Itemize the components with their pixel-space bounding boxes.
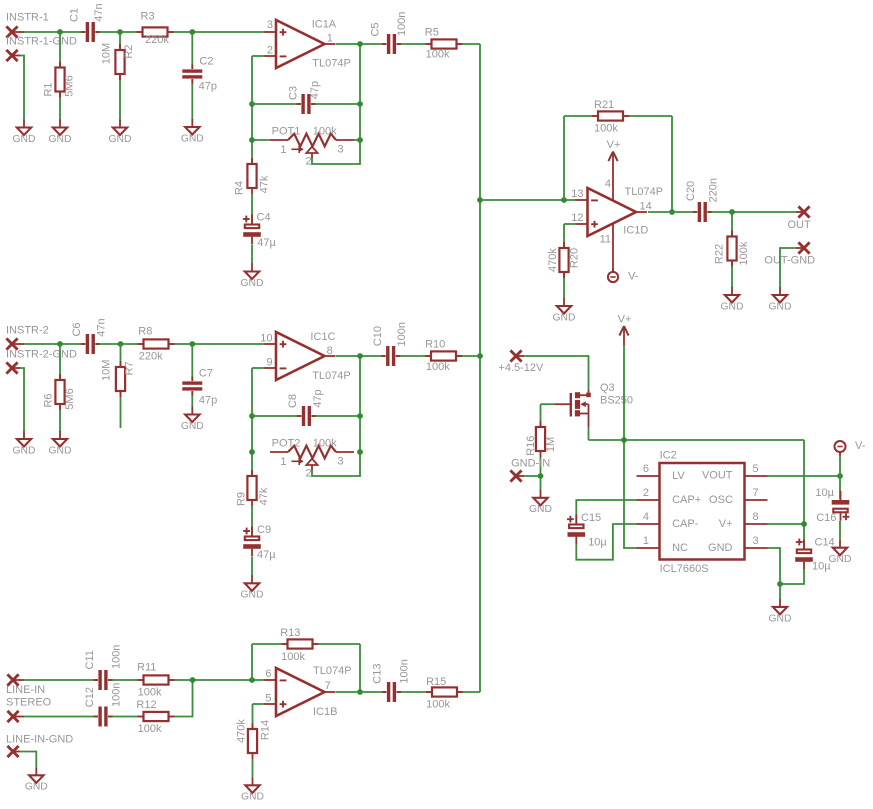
svg-text:IC1C: IC1C <box>310 331 335 343</box>
wire feedback left leg 2 <box>251 368 253 476</box>
ground <box>13 120 36 145</box>
svg-text:R16: R16 <box>525 436 537 456</box>
node junction GND-IN <box>538 473 544 479</box>
svg-text:R7: R7 <box>124 361 136 375</box>
svg-text:R5: R5 <box>425 27 439 39</box>
potentiometer POT2 <box>270 437 354 479</box>
node junction R1 <box>57 29 63 35</box>
svg-text:C14: C14 <box>815 537 835 549</box>
svg-text:2: 2 <box>305 156 311 168</box>
op-amp IC1B <box>264 665 352 718</box>
svg-text:100k: 100k <box>426 49 450 61</box>
svg-text:STEREO: STEREO <box>6 696 52 708</box>
node junction R6 <box>57 341 63 347</box>
node junction stereo mix <box>190 677 196 683</box>
wire IC1D V+ pin 4 <box>612 170 614 200</box>
svg-text:10µ: 10µ <box>588 536 607 548</box>
wire LINE-IN row2 <box>24 680 193 717</box>
ground <box>13 431 36 456</box>
svg-text:V-: V- <box>628 271 639 283</box>
svg-text:R13: R13 <box>280 627 300 639</box>
resistor R15 <box>426 676 463 710</box>
wire R22 branch <box>731 212 733 288</box>
svg-text:CAP-: CAP- <box>672 518 699 530</box>
net label INSTR-2 <box>6 325 49 337</box>
wire R21 row <box>564 115 672 117</box>
svg-text:C20: C20 <box>685 181 697 201</box>
resistor R2 <box>101 43 135 80</box>
svg-text:R1: R1 <box>43 82 55 96</box>
svg-text:47p: 47p <box>309 81 321 99</box>
svg-text:GND: GND <box>708 542 733 554</box>
svg-text:TL074P: TL074P <box>312 370 351 382</box>
svg-text:INSTR-2: INSTR-2 <box>6 325 49 337</box>
resistor R13 <box>280 627 318 663</box>
svg-text:1M: 1M <box>545 437 557 452</box>
op-amp IC1D <box>571 178 663 246</box>
wire R1 branch <box>59 32 61 121</box>
wire VOUT to C16 <box>839 476 841 500</box>
wire R4 to C4 <box>251 194 253 224</box>
resistor R5 <box>425 27 463 61</box>
svg-text:220n: 220n <box>707 178 719 202</box>
svg-text:100n: 100n <box>110 645 122 669</box>
pin OUT <box>796 206 810 217</box>
wire mixing trunk <box>479 44 481 692</box>
svg-text:8: 8 <box>753 511 759 523</box>
svg-text:100k: 100k <box>313 125 337 137</box>
wire R14 leg <box>252 704 254 729</box>
svg-text:POT2: POT2 <box>272 437 301 449</box>
wire Q3 source down <box>588 427 590 440</box>
svg-text:R15: R15 <box>426 676 446 688</box>
net label INSTR-2-GND <box>6 349 77 361</box>
wire IC1A output row <box>336 43 480 45</box>
wire V- stem <box>839 454 841 476</box>
svg-text:3: 3 <box>338 456 344 468</box>
net label LINE-IN <box>6 684 45 696</box>
wire IC1C output row <box>336 355 480 357</box>
wire OUT-GND to ground <box>780 248 796 287</box>
wire INSTR-1-GND to ground <box>20 56 24 121</box>
wire INSTR-1 row <box>24 31 264 33</box>
svg-text:R2: R2 <box>123 45 135 59</box>
pin INSTR-1-GND <box>6 50 20 61</box>
wire C4 to ground <box>251 245 253 264</box>
svg-text:GND: GND <box>181 421 204 432</box>
pin LINE-IN left <box>7 674 24 685</box>
wire LINE-IN-GND to ground <box>20 752 36 768</box>
svg-text:IC1B: IC1B <box>313 706 337 718</box>
svg-text:2: 2 <box>267 45 273 57</box>
svg-text:C10: C10 <box>372 326 384 346</box>
svg-text:OUT-GND: OUT-GND <box>764 254 815 266</box>
wire GND-IN to node <box>524 475 541 477</box>
svg-text:5M6: 5M6 <box>64 388 76 409</box>
wire IC1B noninverting input <box>253 703 265 705</box>
node junction IC1B out <box>357 689 363 695</box>
svg-text:V-: V- <box>855 440 866 452</box>
ground <box>181 407 204 432</box>
node junction C8 left <box>249 413 255 419</box>
net label GND-IN <box>511 458 550 470</box>
svg-text:12: 12 <box>571 212 583 224</box>
wire R6 branch <box>59 344 61 432</box>
svg-text:1: 1 <box>280 144 286 156</box>
IC U2 ICL7660S <box>637 450 768 575</box>
svg-text:C8: C8 <box>287 394 299 408</box>
svg-text:5: 5 <box>753 463 759 475</box>
wire VOUT row <box>768 475 841 477</box>
ground <box>49 120 72 145</box>
wire CAP+ to C15 <box>576 500 636 524</box>
node junction IC1B input <box>249 677 255 683</box>
svg-text:100n: 100n <box>110 683 122 707</box>
svg-text:100k: 100k <box>738 241 750 265</box>
wire R9 to C9 <box>251 506 253 536</box>
wire POT2 wiper leg <box>312 452 360 476</box>
ground <box>769 287 792 312</box>
pin LINE-IN right <box>7 711 24 722</box>
svg-text:NC: NC <box>672 542 688 554</box>
ground <box>241 575 264 600</box>
svg-text:47p: 47p <box>312 389 324 407</box>
svg-text:R14: R14 <box>260 720 272 740</box>
svg-text:C3: C3 <box>288 86 300 100</box>
node junction VOUT <box>837 473 843 479</box>
resistor R16 <box>525 421 557 457</box>
capacitor C9 <box>243 524 277 561</box>
potentiometer POT1 <box>270 125 354 167</box>
svg-text:220k: 220k <box>139 351 163 363</box>
node summing trunk tap <box>477 197 483 203</box>
svg-text:6: 6 <box>265 668 271 680</box>
svg-text:47p: 47p <box>199 81 217 93</box>
svg-text:13: 13 <box>571 188 583 200</box>
svg-text:LINE-IN: LINE-IN <box>6 684 45 696</box>
svg-text:3: 3 <box>338 144 344 156</box>
resistor R12 <box>136 699 174 735</box>
svg-text:R6: R6 <box>43 393 55 407</box>
wire IC1D V- pin 11 <box>612 224 614 272</box>
wire gate to R16 <box>540 404 542 427</box>
svg-text:C15: C15 <box>581 512 601 524</box>
op-amp IC1A <box>264 19 351 70</box>
svg-text:100k: 100k <box>594 122 618 134</box>
wire POT1 right <box>354 139 360 141</box>
wire summing row <box>480 199 576 201</box>
capacitor C6 <box>71 318 107 354</box>
node junction POT2 right <box>357 449 363 455</box>
node junction IC2 ground <box>777 581 783 587</box>
svg-text:TL074P: TL074P <box>312 57 351 69</box>
net label STEREO <box>6 696 52 708</box>
resistor R14 <box>236 719 272 759</box>
svg-text:C4: C4 <box>257 212 271 224</box>
svg-text:C12: C12 <box>84 687 96 707</box>
svg-text:GND: GND <box>13 134 36 145</box>
node junction IC1A out <box>357 41 363 47</box>
svg-text:OUT: OUT <box>788 219 812 231</box>
svg-text:10: 10 <box>260 332 272 344</box>
svg-text:1: 1 <box>643 535 649 547</box>
svg-text:GND: GND <box>241 590 264 601</box>
svg-text:6: 6 <box>643 463 649 475</box>
resistor R9 <box>236 470 271 506</box>
svg-text:GND: GND <box>769 301 792 312</box>
node junction C2 <box>189 29 195 35</box>
pin OUT-GND <box>796 242 810 253</box>
svg-text:10µ: 10µ <box>812 561 831 573</box>
capacitor C7 <box>182 368 217 407</box>
transistor Q3 <box>555 382 633 427</box>
svg-text:OSC: OSC <box>709 494 733 506</box>
node junction R22 <box>729 209 735 215</box>
node junction IC1C out <box>357 353 363 359</box>
wire V+ rail <box>589 439 805 441</box>
svg-text:V+: V+ <box>618 314 632 326</box>
svg-text:+4.5-12V: +4.5-12V <box>498 362 544 374</box>
svg-text:GND: GND <box>553 312 576 323</box>
svg-text:4: 4 <box>605 178 611 190</box>
svg-text:GND: GND <box>241 278 264 289</box>
wire GND pin3 <box>768 548 781 599</box>
svg-text:GND: GND <box>529 504 552 515</box>
svg-text:47n: 47n <box>96 318 108 336</box>
resistor R10 <box>425 339 462 374</box>
wire R13 left leg <box>251 644 253 680</box>
svg-text:INSTR-1-GND: INSTR-1-GND <box>6 36 77 48</box>
svg-text:GND: GND <box>181 133 204 144</box>
svg-text:1: 1 <box>280 456 286 468</box>
svg-text:R8: R8 <box>138 326 152 338</box>
svg-text:CAP+: CAP+ <box>672 494 701 506</box>
svg-text:GND: GND <box>109 134 132 145</box>
wire IC1C inverting input <box>252 367 264 369</box>
svg-text:R11: R11 <box>137 662 156 674</box>
wire C14 to ground node <box>780 570 804 585</box>
pin +4.5-12V <box>510 350 524 361</box>
wire C8 row <box>252 415 360 417</box>
svg-text:BS250: BS250 <box>600 395 633 407</box>
node junction C3 right <box>357 101 363 107</box>
wire C15 to CAP- <box>576 524 636 560</box>
svg-text:V+: V+ <box>719 518 733 530</box>
svg-text:R21: R21 <box>594 99 614 111</box>
wire R20 leg <box>563 224 565 298</box>
svg-text:R3: R3 <box>141 10 155 22</box>
node junction C8 right <box>357 413 363 419</box>
svg-text:LINE-IN-GND: LINE-IN-GND <box>6 734 73 746</box>
svg-text:R10: R10 <box>425 339 445 351</box>
wire C7 branch <box>191 344 193 407</box>
svg-text:47k: 47k <box>259 175 271 193</box>
svg-text:47p: 47p <box>199 395 217 407</box>
resistor R4 <box>234 158 271 195</box>
pin INSTR-2 <box>6 338 24 349</box>
resistor R20 <box>547 242 581 278</box>
resistor R21 <box>592 99 629 134</box>
svg-text:C13: C13 <box>372 664 384 684</box>
wire POT1 left <box>252 139 270 141</box>
node junction C3 left <box>249 101 255 107</box>
wire POT1 wiper leg <box>312 140 360 164</box>
svg-text:INSTR-2-GND: INSTR-2-GND <box>6 349 77 361</box>
svg-text:9: 9 <box>266 356 272 368</box>
resistor R11 <box>137 662 175 699</box>
net label INSTR-1-GND <box>6 36 77 48</box>
svg-text:GND: GND <box>769 613 792 624</box>
capacitor C4 <box>243 212 277 250</box>
svg-text:VOUT: VOUT <box>702 470 733 482</box>
wire INSTR-2-GND to ground <box>20 368 24 431</box>
svg-text:GND: GND <box>829 554 852 565</box>
capacitor C15 <box>567 512 608 548</box>
ground <box>241 777 264 802</box>
pin LINE-IN-GND <box>7 746 20 757</box>
wire R21 left leg <box>563 116 565 200</box>
resistor R22 <box>713 231 750 267</box>
net label +4.5-12V <box>498 362 544 374</box>
svg-text:100k: 100k <box>281 651 305 663</box>
capacitor C12 <box>84 683 122 727</box>
capacitor C3 <box>288 81 322 115</box>
wire R14 to ground <box>252 759 254 777</box>
svg-text:11: 11 <box>600 234 611 246</box>
svg-text:R22: R22 <box>713 244 725 264</box>
capacitor C13 <box>372 659 411 702</box>
wire Q3 gate <box>541 403 556 405</box>
svg-text:10M: 10M <box>101 360 113 381</box>
ground <box>241 264 264 289</box>
svg-text:GND: GND <box>25 782 48 793</box>
svg-text:47n: 47n <box>93 3 105 21</box>
svg-text:47µ: 47µ <box>257 549 276 561</box>
svg-text:1: 1 <box>327 32 333 44</box>
svg-text:TL074P: TL074P <box>625 186 664 198</box>
ground <box>553 298 576 323</box>
ground <box>769 599 792 624</box>
svg-text:GND: GND <box>241 792 264 803</box>
ground <box>529 490 552 515</box>
svg-text:220k: 220k <box>145 34 169 46</box>
ground <box>109 120 132 145</box>
ground <box>49 431 72 456</box>
svg-text:100n: 100n <box>398 659 410 683</box>
svg-text:GND: GND <box>721 301 744 312</box>
svg-text:2: 2 <box>643 487 649 499</box>
svg-text:C6: C6 <box>71 322 83 336</box>
svg-text:14: 14 <box>640 200 652 212</box>
node junction R7 <box>118 341 124 347</box>
svg-text:Q3: Q3 <box>600 382 615 394</box>
wire R21 right leg <box>671 116 673 212</box>
resistor R6 <box>43 374 76 410</box>
resistor R7 <box>101 360 136 397</box>
svg-text:R4: R4 <box>234 181 246 195</box>
svg-text:100k: 100k <box>426 698 450 710</box>
svg-text:C16: C16 <box>816 512 836 524</box>
wire feedback right leg 1 <box>359 44 361 140</box>
node junction IC1D out <box>669 209 675 215</box>
wire C2 branch <box>191 32 193 120</box>
wire LINE-IN row <box>24 679 264 681</box>
svg-text:5: 5 <box>265 693 271 705</box>
svg-text:ICL7660S: ICL7660S <box>660 563 709 575</box>
node junction C7 <box>189 341 195 347</box>
svg-text:C2: C2 <box>199 56 213 68</box>
wire R7 branch dangling <box>120 344 122 428</box>
wire IC1D output row <box>648 211 796 213</box>
svg-text:C1: C1 <box>68 8 80 22</box>
resistor R3 <box>137 10 174 46</box>
pin INSTR-2-GND <box>6 362 20 373</box>
wire feedback left leg 1 <box>251 56 253 164</box>
wire IC1D noninverting input <box>564 223 576 225</box>
wire C9 to ground <box>251 557 253 576</box>
node junction R21 left <box>561 197 567 203</box>
svg-text:7: 7 <box>325 680 331 692</box>
svg-text:100n: 100n <box>396 322 408 346</box>
svg-text:GND: GND <box>13 445 36 456</box>
wire IC1B output row <box>336 691 480 693</box>
wire feedback right leg 2 <box>359 356 361 452</box>
capacitor C16 <box>815 487 850 524</box>
wire R16 to ground node <box>540 457 542 490</box>
V+ supply symbol rail <box>618 314 632 345</box>
svg-text:100k: 100k <box>313 437 337 449</box>
svg-text:100k: 100k <box>426 361 450 373</box>
svg-text:47k: 47k <box>258 487 270 505</box>
svg-text:C7: C7 <box>199 368 213 380</box>
node junction R2 <box>117 29 123 35</box>
resistor R8 <box>138 326 175 363</box>
node junction POT2 left <box>249 449 255 455</box>
ground <box>829 540 852 565</box>
node junction pin8 <box>801 521 807 527</box>
svg-text:TL074P: TL074P <box>313 665 352 677</box>
wire C3 row <box>252 103 360 105</box>
svg-text:100n: 100n <box>396 12 408 36</box>
svg-text:R20: R20 <box>569 248 581 268</box>
wire R13 row <box>252 643 360 645</box>
V- supply symbol IC1D <box>608 268 639 283</box>
svg-text:3: 3 <box>267 19 273 31</box>
capacitor C1 <box>68 3 104 42</box>
svg-text:5M6: 5M6 <box>64 75 76 96</box>
svg-text:8: 8 <box>327 345 333 357</box>
V+ supply symbol IC1D <box>607 139 621 170</box>
V- supply symbol output <box>835 440 866 456</box>
net label OUT-GND <box>764 254 815 266</box>
svg-text:47µ: 47µ <box>257 237 276 249</box>
capacitor C5 <box>370 12 408 55</box>
node junction V+ rail <box>621 437 627 443</box>
svg-text:10µ: 10µ <box>815 487 834 499</box>
capacitor C10 <box>372 322 408 367</box>
net label OUT <box>788 219 812 231</box>
svg-text:IC1D: IC1D <box>623 225 648 237</box>
wire R13 right leg <box>359 644 361 692</box>
node trunk tap stage2 <box>477 353 483 359</box>
net label INSTR-1 <box>6 12 49 24</box>
op-amp IC1C <box>260 331 350 382</box>
wire IC1A inverting input <box>252 55 264 57</box>
ground <box>721 287 744 312</box>
svg-text:2: 2 <box>305 468 311 480</box>
wire C16 to ground <box>839 521 841 540</box>
svg-text:GND: GND <box>49 134 72 145</box>
